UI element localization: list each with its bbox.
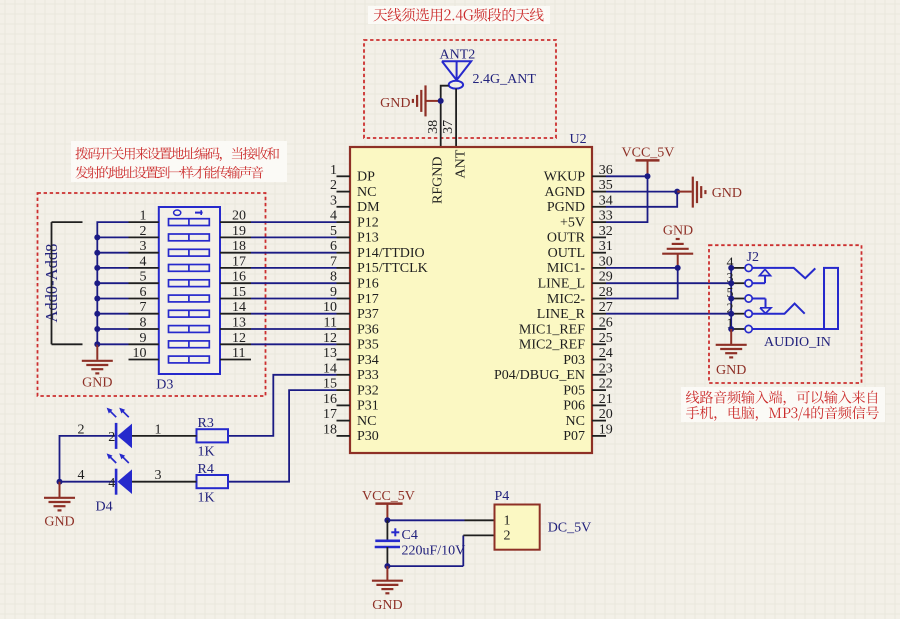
svg-text:18: 18 <box>232 239 246 254</box>
wire C4 gnd to P4 pin2 <box>387 535 494 566</box>
wire MIC2- pin28 tie <box>606 268 678 299</box>
jack ring contact (pin2) <box>752 304 804 314</box>
svg-text:P32: P32 <box>357 383 379 398</box>
svg-text:MIC2-: MIC2- <box>547 292 585 307</box>
svg-text:2: 2 <box>140 224 147 239</box>
svg-text:14: 14 <box>232 300 246 315</box>
svg-text:GND: GND <box>380 96 410 111</box>
pin 18 P30 <box>323 422 379 444</box>
junction J2 strap <box>728 265 734 271</box>
svg-text:16: 16 <box>323 392 337 407</box>
connector J2 pin 4 <box>727 256 753 272</box>
pin 10 P37 <box>323 300 379 322</box>
junction VCC_5V <box>645 173 651 179</box>
svg-text:11: 11 <box>232 346 245 361</box>
switch D3 body <box>159 207 220 374</box>
svg-text:1: 1 <box>330 163 337 178</box>
junction bus row 9 <box>94 341 100 347</box>
wire P33 pin14 to R3 <box>228 375 337 436</box>
wire LED1 anode to R3 <box>132 422 197 437</box>
pin 34 PGND <box>547 193 613 215</box>
svg-text:19: 19 <box>232 224 246 239</box>
junction bus row 2 <box>94 234 100 240</box>
svg-text:9: 9 <box>140 331 147 346</box>
svg-text:32: 32 <box>599 224 613 239</box>
svg-text:P14/TTDIO: P14/TTDIO <box>357 246 425 261</box>
svg-text:6: 6 <box>140 285 147 300</box>
svg-text:1: 1 <box>504 513 511 528</box>
connector J2 pin 3 <box>727 271 753 287</box>
wire pin37 ANT to antenna <box>455 89 457 147</box>
power VCC_5V (right) <box>622 146 675 177</box>
label ANT2 <box>440 47 476 62</box>
junction antenna gnd <box>438 98 444 104</box>
svg-text:GND: GND <box>716 363 746 378</box>
value 1K (R4) <box>198 490 215 505</box>
value 220uF/10V <box>402 544 466 559</box>
junction bus row 6 <box>94 296 100 302</box>
wire LINE_R pin27 to J2 <box>606 313 731 315</box>
wire dip pin 9 to bus <box>97 331 159 346</box>
svg-text:21: 21 <box>599 392 613 407</box>
junction J2 strap <box>728 326 734 332</box>
svg-text:3: 3 <box>140 239 147 254</box>
value 1K (R3) <box>198 445 215 460</box>
switch indicator 1 <box>195 210 203 215</box>
svg-text:P36: P36 <box>357 322 379 337</box>
svg-text:38: 38 <box>426 120 441 134</box>
switch element row 9 <box>169 341 210 348</box>
svg-text:P07: P07 <box>563 429 585 444</box>
wire dip pin 8 to bus <box>97 316 159 331</box>
pin 4 P12 <box>330 209 379 231</box>
annotation note: DIP switch address explanation <box>71 141 287 182</box>
pin 5 P13 <box>330 224 379 246</box>
pin 3 DM <box>330 193 380 215</box>
wire LINE_L pin29 to J2 <box>606 282 731 284</box>
switch element row 1 <box>169 219 210 226</box>
pin 14 P33 <box>323 361 379 383</box>
svg-text:2: 2 <box>504 528 511 543</box>
switch element row 6 <box>169 295 210 302</box>
label Add0-Add8 <box>42 244 61 323</box>
switch element row 8 <box>169 326 210 333</box>
svg-text:13: 13 <box>323 346 337 361</box>
pin 19 P07 <box>563 422 612 444</box>
svg-text:GND: GND <box>82 376 112 391</box>
ground GND (right, sideways) <box>677 177 742 208</box>
ground GND (J2) <box>716 329 747 378</box>
svg-text:18: 18 <box>323 422 337 437</box>
pin 16 P31 <box>323 392 379 414</box>
svg-text:220uF/10V: 220uF/10V <box>402 544 466 559</box>
switch element row 5 <box>169 280 210 287</box>
svg-text:4: 4 <box>140 254 147 269</box>
svg-text:3: 3 <box>330 193 337 208</box>
svg-text:GND: GND <box>663 224 693 239</box>
switch element row 4 <box>169 265 210 272</box>
svg-text:P12: P12 <box>357 215 379 230</box>
wire dip pin 13 to U2 pin 11 <box>220 316 337 331</box>
svg-text:DC_5V: DC_5V <box>548 520 592 535</box>
pin 11 P36 <box>324 316 379 338</box>
svg-text:J2: J2 <box>747 250 759 265</box>
annotation note: antenna must use 2.4G band antenna <box>368 6 550 24</box>
dip pin 11 stub <box>220 346 251 361</box>
annotation box: antenna area <box>364 40 556 138</box>
svg-text:2.4G_ANT: 2.4G_ANT <box>473 72 537 87</box>
svg-text:DM: DM <box>357 200 380 215</box>
svg-text:LINE_R: LINE_R <box>537 307 586 322</box>
svg-text:P04/DBUG_EN: P04/DBUG_EN <box>494 368 585 383</box>
junction bus row 3 <box>94 250 100 256</box>
pin 17 NC <box>323 407 376 429</box>
jack tip arrow (pin3) <box>752 269 770 283</box>
junction LED gnd <box>57 479 63 485</box>
svg-text:7: 7 <box>140 300 147 315</box>
pin 37 ANT (top) <box>441 120 468 179</box>
jack ring arrow (pin5) <box>752 299 771 314</box>
pin 26 MIC1_REF <box>519 316 613 338</box>
svg-text:P13: P13 <box>357 231 379 246</box>
svg-text:P03: P03 <box>563 353 585 368</box>
svg-text:37: 37 <box>441 120 456 134</box>
annotation box: dip switch area <box>38 193 266 396</box>
svg-text:2: 2 <box>330 178 337 193</box>
svg-text:OUTR: OUTR <box>547 231 586 246</box>
wire MIC1- pin30 to gnd <box>606 267 678 269</box>
wire PGND pin34 to gnd <box>606 192 677 207</box>
wire dip pin 6 to bus <box>97 285 159 300</box>
svg-text:8: 8 <box>140 316 147 331</box>
wire dip pin 14 to U2 pin 10 <box>220 300 337 315</box>
ground GND (mic, inverted) <box>662 224 693 268</box>
svg-text:MIC1_REF: MIC1_REF <box>519 322 585 337</box>
junction AGND <box>674 189 680 195</box>
pin 1 DP <box>330 163 375 185</box>
LED D4 unit B (pin4/3) <box>107 453 132 494</box>
wire dip pin 5 to bus <box>97 270 159 285</box>
power VCC_5V (bottom) <box>362 489 415 521</box>
svg-text:P06: P06 <box>563 399 585 414</box>
svg-text:5: 5 <box>140 270 147 285</box>
label AUDIO_IN <box>764 335 831 350</box>
pin 9 P17 <box>330 285 379 307</box>
resistor R3 <box>197 429 229 442</box>
connector J2 pin 5 <box>727 286 753 302</box>
wire dip pin 15 to U2 pin 9 <box>220 285 337 300</box>
svg-text:P34: P34 <box>357 353 379 368</box>
svg-text:AGND: AGND <box>545 185 585 200</box>
wire P32 pin15 to R4 <box>228 390 337 482</box>
pin 7 P15/TTCLK <box>330 254 428 276</box>
wire J2 pin strap <box>730 268 732 329</box>
wire dip pin 1 to bus <box>129 209 159 224</box>
ground GND (bottom) <box>372 566 403 613</box>
svg-text:U2: U2 <box>570 132 587 147</box>
junction J2 strap <box>728 296 734 302</box>
svg-text:4: 4 <box>78 468 85 483</box>
svg-text:20: 20 <box>232 209 246 224</box>
pin 38 RFGND (top) <box>426 120 445 204</box>
pin 2 NC <box>330 178 376 200</box>
wire dip pin 3 to bus <box>97 239 159 254</box>
pin 23 P04/DBUG_EN <box>494 361 613 383</box>
pin 31 OUTL <box>548 239 613 261</box>
svg-text:12: 12 <box>232 331 246 346</box>
svg-text:19: 19 <box>599 422 613 437</box>
pin 12 P35 <box>323 331 379 353</box>
svg-text:P16: P16 <box>357 277 379 292</box>
svg-text:AUDIO_IN: AUDIO_IN <box>764 335 831 350</box>
switch element row 10 <box>169 356 210 363</box>
wire dip pin 7 to bus <box>97 300 159 315</box>
pin 13 P34 <box>323 346 379 368</box>
svg-text:R4: R4 <box>198 462 214 477</box>
wire dip pin 2 to bus <box>97 224 159 239</box>
pin 28 MIC2- <box>547 285 613 307</box>
connector P4 <box>495 505 540 550</box>
pin 8 P16 <box>330 270 379 292</box>
label J2 <box>747 250 759 265</box>
antenna ANT2 <box>442 61 471 88</box>
net label 2.4G_ANT <box>473 72 537 87</box>
pin 29 LINE_L <box>538 270 613 292</box>
pin 25 MIC2_REF <box>519 331 613 353</box>
svg-text:17: 17 <box>232 254 246 269</box>
svg-text:31: 31 <box>599 239 613 254</box>
label DC_5V <box>548 520 592 535</box>
pin 22 P05 <box>563 377 612 399</box>
svg-text:P33: P33 <box>357 368 379 383</box>
connector J2 pin 1 <box>727 317 753 333</box>
label P4 <box>495 489 510 504</box>
svg-text:25: 25 <box>599 331 613 346</box>
bus wire to GND <box>97 222 128 344</box>
svg-text:10: 10 <box>133 346 147 361</box>
svg-text:GND: GND <box>712 186 742 201</box>
svg-text:VCC_5V: VCC_5V <box>622 146 675 161</box>
wire dip pin 4 to bus <box>97 254 159 269</box>
bracket Add0-Add8 <box>52 222 83 344</box>
wire pin38 RFGND to antenna <box>441 86 449 147</box>
svg-text:23: 23 <box>599 361 613 376</box>
pin 33 +5V <box>560 209 613 231</box>
svg-text:1K: 1K <box>198 445 215 460</box>
junction VCC bottom <box>384 517 390 523</box>
pin 32 OUTR <box>547 224 613 246</box>
wire WKUP pin36 to VCC <box>606 175 648 177</box>
svg-text:P15/TTCLK: P15/TTCLK <box>357 261 428 276</box>
svg-text:WKUP: WKUP <box>544 170 585 185</box>
wire dip pin 19 to U2 pin 5 <box>220 224 337 239</box>
wire VCC to P4 pin1 <box>387 519 494 521</box>
svg-text:P31: P31 <box>357 399 379 414</box>
svg-text:24: 24 <box>599 346 613 361</box>
svg-text:NC: NC <box>566 414 585 429</box>
junction J2 strap <box>728 280 734 286</box>
svg-text:D3: D3 <box>156 378 173 393</box>
svg-text:22: 22 <box>599 377 613 392</box>
svg-text:1: 1 <box>155 422 162 437</box>
IC U2 body <box>350 147 592 453</box>
svg-text:NC: NC <box>357 185 376 200</box>
svg-text:13: 13 <box>232 316 246 331</box>
svg-text:GND: GND <box>372 598 402 613</box>
svg-text:LINE_L: LINE_L <box>538 277 585 292</box>
dip pin 10 stub <box>129 346 159 361</box>
wire dip pin 16 to U2 pin 8 <box>220 270 337 285</box>
svg-text:MIC1-: MIC1- <box>547 261 585 276</box>
wire LED2 anode to R4 <box>132 468 197 483</box>
label U2 <box>570 132 587 147</box>
pin 6 P14/TTDIO <box>330 239 425 261</box>
svg-text:2: 2 <box>78 422 85 437</box>
connector J2 pin 2 <box>727 301 753 317</box>
switch element row 2 <box>169 234 210 241</box>
wire dip pin 17 to U2 pin 7 <box>220 254 337 269</box>
pin 21 P06 <box>563 392 612 414</box>
label R3 <box>198 416 214 431</box>
wire AGND pin35 to gnd <box>606 191 677 193</box>
svg-text:15: 15 <box>232 285 246 300</box>
pin 30 MIC1- <box>547 254 613 276</box>
svg-text:ANT: ANT <box>454 149 469 178</box>
wire dip pin 18 to U2 pin 6 <box>220 239 337 254</box>
svg-text:R3: R3 <box>198 416 214 431</box>
label R4 <box>198 462 214 477</box>
wire dip pin 12 to U2 pin 12 <box>220 331 337 346</box>
resistor R4 <box>197 475 229 488</box>
junction bus row 4 <box>94 265 100 271</box>
junction C4 gnd <box>384 563 390 569</box>
pin 20 NC <box>566 407 613 429</box>
svg-text:P30: P30 <box>357 429 379 444</box>
svg-text:20: 20 <box>599 407 613 422</box>
pin 35 AGND <box>545 178 613 200</box>
pin 24 P03 <box>563 346 612 368</box>
switch indicator 0 <box>174 210 181 215</box>
pin 27 LINE_R <box>537 300 613 322</box>
junction MIC gnd <box>675 265 681 271</box>
jack switch contact top (pin4) <box>752 268 815 278</box>
capacitor C4 <box>375 520 400 566</box>
svg-text:DP: DP <box>357 170 375 185</box>
svg-text:GND: GND <box>44 515 74 530</box>
label D3 <box>156 378 173 393</box>
svg-text:NC: NC <box>357 414 376 429</box>
svg-text:4: 4 <box>108 476 115 491</box>
annotation note: line audio input explanation <box>681 387 885 422</box>
switch element row 7 <box>169 310 210 317</box>
svg-text:P37: P37 <box>357 307 379 322</box>
svg-text:3: 3 <box>155 468 162 483</box>
junction J2 strap <box>728 311 734 317</box>
wire dip pin 20 to U2 pin 4 <box>220 209 337 224</box>
svg-text:P4: P4 <box>495 489 510 504</box>
svg-text:OUTL: OUTL <box>548 246 585 261</box>
svg-text:P05: P05 <box>563 383 585 398</box>
annotation box: audio input area <box>709 245 862 383</box>
LED D4 unit A (pin2/1) <box>107 408 132 449</box>
svg-text:P35: P35 <box>357 338 379 353</box>
junction bus row 8 <box>94 326 100 332</box>
wire LED cathodes to GND <box>60 422 117 483</box>
svg-text:C4: C4 <box>402 528 418 543</box>
junction bus row 7 <box>94 311 100 317</box>
svg-text:26: 26 <box>599 316 613 331</box>
pin 15 P32 <box>323 377 379 399</box>
label D4 <box>96 499 113 514</box>
svg-text:1K: 1K <box>198 490 215 505</box>
junction bus row 5 <box>94 280 100 286</box>
jack sleeve (pin1) <box>752 268 838 329</box>
ground GND antenna (sideways) <box>380 85 441 116</box>
svg-text:16: 16 <box>232 270 246 285</box>
svg-text:MIC2_REF: MIC2_REF <box>519 338 585 353</box>
svg-text:1: 1 <box>140 209 147 224</box>
ground GND (led) <box>44 482 75 530</box>
svg-text:P17: P17 <box>357 292 379 307</box>
label C4 <box>402 528 418 543</box>
wire +5V pin33 to VCC <box>606 176 648 222</box>
svg-text:VCC_5V: VCC_5V <box>362 489 415 504</box>
svg-text:RFGND: RFGND <box>430 157 445 204</box>
ground GND (dip) <box>82 344 113 390</box>
svg-text:ANT2: ANT2 <box>440 47 476 62</box>
svg-text:D4: D4 <box>96 499 113 514</box>
svg-text:+5V: +5V <box>560 215 585 230</box>
svg-text:17: 17 <box>323 407 337 422</box>
svg-text:PGND: PGND <box>547 200 585 215</box>
switch element row 3 <box>169 249 210 256</box>
svg-text:2: 2 <box>108 430 115 445</box>
pin 36 WKUP <box>544 163 613 185</box>
